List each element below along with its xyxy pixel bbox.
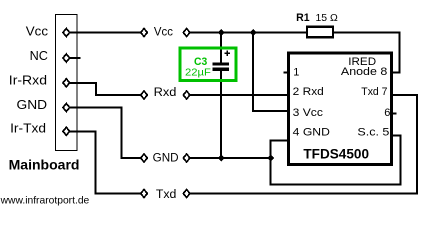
- wire C3 bottom to GND row: [220, 71, 222, 158]
- capacitor C3 top plate: [213, 62, 229, 65]
- pin 2 terminal diamond: [63, 54, 70, 62]
- svg-text:1: 1: [293, 66, 299, 78]
- node Txd right diamond: [183, 190, 190, 198]
- svg-text:15 Ω: 15 Ω: [316, 12, 338, 24]
- svg-text:Vcc: Vcc: [26, 24, 49, 39]
- svg-text:4 GND: 4 GND: [293, 126, 330, 138]
- svg-text:3 Vcc: 3 Vcc: [293, 107, 324, 119]
- svg-text:Anode 8: Anode 8: [341, 66, 387, 78]
- node Vcc left diamond: [141, 29, 148, 37]
- node Txd left diamond: [141, 190, 148, 198]
- wire IC pin 5 to GND junction: [271, 135, 401, 184]
- svg-text:Rxd: Rxd: [154, 87, 177, 99]
- wire R1 to IC pin 8: [334, 33, 400, 73]
- svg-text:Ir-Txd: Ir-Txd: [10, 121, 46, 136]
- wire Vcc pin to Vcc node: [70, 32, 142, 34]
- junction GND/pin4/pin5: [267, 155, 274, 162]
- pin 5 terminal diamond: [63, 127, 70, 135]
- svg-text:R1: R1: [296, 12, 310, 24]
- junction Vcc/C3: [218, 29, 225, 36]
- wire GND pin to GND node: [70, 108, 142, 159]
- wire Ir-Rxd to Rxd node: [70, 83, 142, 95]
- wire NC stub: [70, 57, 81, 59]
- pin 1 terminal diamond: [63, 29, 70, 37]
- wire Vcc node to R1: [190, 32, 306, 34]
- junction GND/C3: [218, 155, 225, 162]
- wire Vcc branch to C3 top: [220, 33, 222, 63]
- IC U1 TFDS4500 body: [289, 53, 392, 165]
- svg-text:Txd: Txd: [156, 189, 177, 201]
- node Rxd left diamond: [141, 91, 148, 99]
- resistor R1 body: [307, 27, 333, 37]
- wire IC pin 4 to GND junction: [271, 141, 289, 159]
- wire Rxd node to IC pin 2: [190, 94, 289, 96]
- junction Vcc/pin3: [250, 29, 257, 36]
- node Vcc right diamond: [183, 29, 190, 37]
- svg-text:6: 6: [384, 107, 390, 119]
- capacitor C3 plus sign: [224, 50, 230, 56]
- svg-text:GND: GND: [153, 152, 179, 164]
- connector J1 Mainboard box: [56, 15, 78, 151]
- node Rxd right diamond: [183, 91, 190, 99]
- IC pin 6 stub: [392, 113, 397, 115]
- svg-text:22µF: 22µF: [185, 67, 211, 79]
- wire GND node to junction: [190, 157, 271, 159]
- svg-text:www.infrarotport.de: www.infrarotport.de: [0, 194, 89, 206]
- svg-text:Vcc: Vcc: [154, 27, 173, 39]
- node GND right diamond: [183, 154, 190, 162]
- IC pin 1 stub: [284, 72, 289, 74]
- capacitor C3 bottom plate: [213, 68, 229, 71]
- pin 4 terminal diamond: [63, 104, 70, 112]
- capacitor C3 highlight box: [180, 48, 236, 80]
- svg-text:2 Rxd: 2 Rxd: [293, 86, 324, 98]
- node GND left diamond: [141, 154, 148, 162]
- svg-text:TFDS4500: TFDS4500: [303, 147, 369, 162]
- wire Ir-Txd to Txd node: [70, 131, 142, 193]
- svg-text:S.c. 5: S.c. 5: [357, 126, 389, 138]
- wire Vcc branch to IC pin 3: [253, 33, 289, 112]
- wire Txd node to IC pin 7: [190, 95, 417, 194]
- svg-text:GND: GND: [17, 97, 48, 112]
- pin 3 terminal diamond: [63, 79, 70, 87]
- svg-text:NC: NC: [30, 48, 48, 63]
- svg-text:Ir-Rxd: Ir-Rxd: [9, 73, 47, 88]
- svg-text:Txd 7: Txd 7: [361, 86, 387, 98]
- svg-text:Mainboard: Mainboard: [9, 157, 80, 173]
